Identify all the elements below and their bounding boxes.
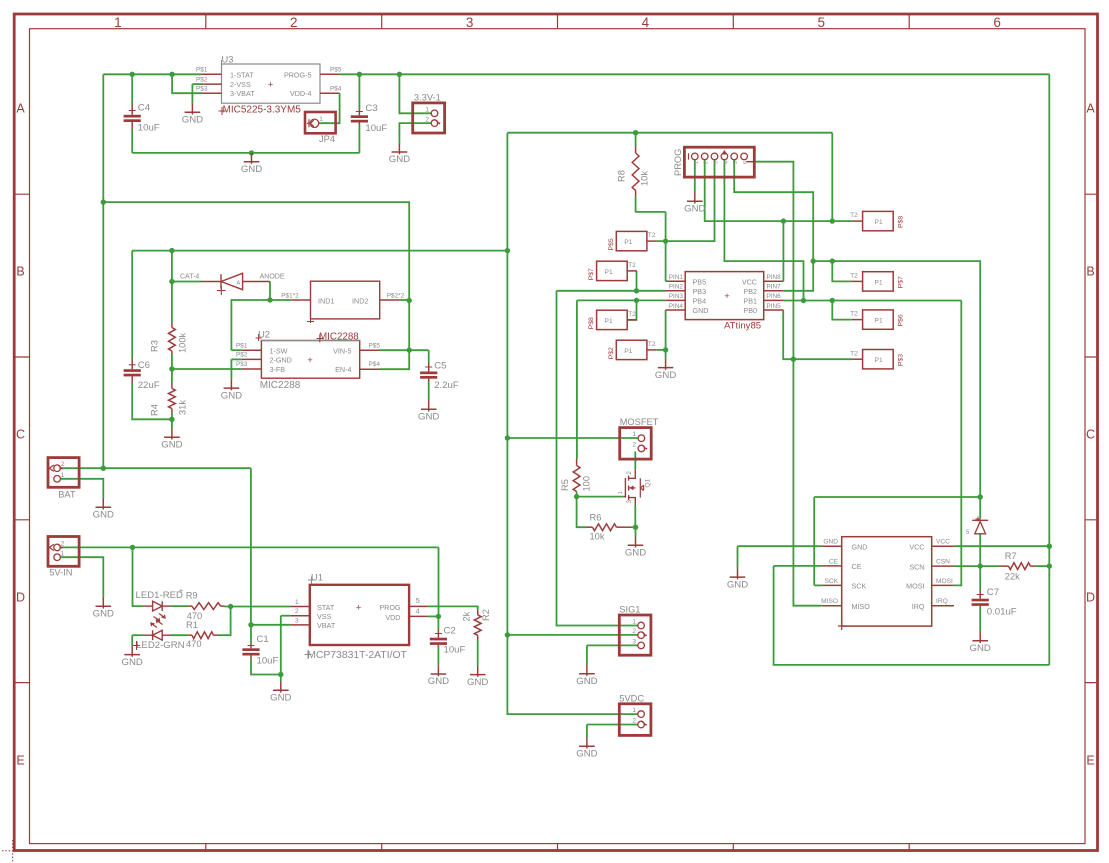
ground PROG pin1 — [684, 193, 705, 215]
wire battery to boost — [103, 202, 409, 300]
svg-text:IRQ: IRQ — [936, 598, 948, 605]
svg-text:PIN1: PIN1 — [669, 274, 684, 281]
resistor R1 body — [192, 632, 214, 639]
svg-text:100: 100 — [582, 476, 592, 492]
U3 pins — [202, 73, 222, 75]
svg-text:T2: T2 — [850, 212, 858, 219]
test point TP2 — [863, 272, 894, 291]
PROG pin 4 — [721, 153, 728, 160]
svg-text:R6: R6 — [590, 512, 602, 522]
svg-text:22k: 22k — [1005, 571, 1020, 581]
wire 5V-IN pin1 to ground — [61, 557, 104, 597]
svg-text:31k: 31k — [178, 400, 188, 415]
svg-text:SIG1: SIG1 — [619, 605, 640, 615]
svg-text:GND: GND — [122, 657, 143, 668]
wire LED1 to R9 — [171, 605, 189, 607]
svg-text:GND: GND — [970, 643, 991, 654]
svg-text:1: 1 — [632, 431, 636, 438]
wire R5 bottom — [576, 492, 578, 497]
svg-text:LED1-RED: LED1-RED — [136, 590, 184, 601]
svg-text:VCC: VCC — [909, 543, 924, 552]
wire C4 top — [131, 74, 133, 104]
svg-text:T2: T2 — [648, 341, 656, 348]
wire to diode cathode — [172, 281, 201, 283]
svg-text:PB3: PB3 — [693, 287, 707, 296]
svg-text:T2: T2 — [628, 311, 636, 318]
svg-text:1: 1 — [632, 619, 636, 626]
wire SCK net right — [813, 261, 980, 497]
wire R4 to ground — [171, 419, 173, 428]
wire PB4 to R5 — [576, 300, 578, 459]
svg-text:P$3: P$3 — [236, 361, 248, 368]
wire to U1 pin3 — [251, 624, 290, 626]
wire ATtiny pin2 row — [557, 290, 666, 292]
svg-text:P$5: P$5 — [330, 67, 342, 74]
svg-text:P$6: P$6 — [898, 314, 905, 326]
wire source to ground — [635, 527, 637, 536]
svg-text:A: A — [237, 281, 241, 287]
svg-text:22uF: 22uF — [138, 380, 160, 391]
svg-text:GND: GND — [467, 677, 488, 688]
wire C3 bottom — [358, 125, 360, 153]
svg-text:4: 4 — [723, 161, 729, 164]
svg-text:GND: GND — [823, 539, 838, 546]
wire BAT pin1 to ground — [61, 479, 104, 499]
capacitor C3 — [351, 115, 368, 122]
svg-text:D: D — [16, 591, 25, 605]
wire U3 pin2 to ground — [191, 84, 193, 103]
svg-text:R2: R2 — [481, 609, 491, 621]
svg-text:PB1: PB1 — [743, 297, 757, 306]
wire ATtiny pin4 to ground — [665, 310, 667, 359]
frame row ticks left — [14, 194, 30, 682]
wire SIG1 pin3 to ground — [586, 645, 588, 665]
wire U1 pin2 link — [281, 615, 291, 617]
svg-text:PIN4: PIN4 — [669, 303, 684, 310]
wire CSN to R7 — [980, 565, 999, 567]
LED2 green — [143, 634, 153, 636]
resistor R8 10k — [635, 147, 637, 154]
svg-text:1-STAT: 1-STAT — [230, 70, 254, 79]
svg-text:PROG: PROG — [673, 149, 683, 176]
svg-text:STAT: STAT — [317, 603, 335, 612]
svg-text:P1: P1 — [605, 318, 613, 325]
svg-text:CE: CE — [829, 558, 839, 565]
svg-text:PIN5: PIN5 — [767, 303, 782, 310]
wire diode bottom — [979, 535, 981, 567]
wire main 5V rail middle — [507, 133, 637, 714]
capacitor C2 plates — [430, 638, 447, 645]
svg-text:C2: C2 — [444, 625, 456, 636]
wire C1 top — [250, 625, 252, 644]
wire PROG pin4 MISO — [724, 160, 803, 301]
wire VIN to EN — [380, 301, 410, 370]
frame row ticks right — [1085, 194, 1098, 682]
capacitor C1 plates — [242, 648, 259, 655]
svg-text:D: D — [1086, 591, 1095, 605]
svg-text:P$7: P$7 — [588, 268, 595, 280]
svg-text:P$2: P$2 — [196, 76, 208, 83]
wire battery to charger — [250, 468, 252, 625]
svg-text:CE: CE — [852, 562, 862, 571]
svg-text:P1: P1 — [875, 357, 883, 364]
resistor R2 2k — [477, 610, 479, 615]
op-amp U5 radio module — [842, 537, 932, 626]
wire reset net vertical — [665, 212, 667, 281]
wire R3 lower — [171, 354, 173, 369]
svg-text:MCP73831T-2ATI/OT: MCP73831T-2ATI/OT — [307, 650, 407, 661]
svg-text:GND: GND — [727, 579, 748, 590]
svg-text:SCK: SCK — [852, 582, 867, 591]
svg-text:VIN-5: VIN-5 — [333, 346, 351, 355]
svg-text:T2: T2 — [850, 350, 858, 357]
svg-text:PB4: PB4 — [693, 297, 707, 306]
svg-text:P$3: P$3 — [898, 354, 905, 366]
connector 5V-IN — [48, 537, 79, 567]
wire C5 bottom to ground — [428, 381, 430, 401]
wire PROG pin2 VCC net — [705, 160, 852, 221]
capacitor C4 — [124, 115, 141, 122]
svg-text:PIN2: PIN2 — [669, 284, 684, 291]
svg-text:P$8: P$8 — [588, 317, 595, 329]
wire SCK testpoint — [832, 261, 852, 281]
wire R3 upper — [171, 282, 173, 323]
resistor R9 470 — [188, 605, 192, 607]
svg-text:GND: GND — [93, 510, 114, 521]
wire U3 pin2 stub link — [192, 83, 201, 85]
svg-text:1: 1 — [61, 550, 65, 557]
resistor R1 470 — [188, 634, 192, 636]
inductor box IND1 IND2 — [311, 281, 380, 319]
ground C1/U1 — [270, 682, 291, 704]
svg-text:10uF: 10uF — [444, 644, 466, 655]
svg-text:1: 1 — [694, 161, 700, 164]
svg-text:P$2: P$2 — [236, 352, 248, 359]
ground R4 — [161, 429, 182, 451]
svg-text:P$7: P$7 — [898, 276, 905, 288]
wire C2 bottom to ground — [437, 647, 439, 666]
svg-text:PIN8: PIN8 — [767, 274, 782, 281]
wire R3 top link — [171, 251, 173, 282]
svg-text:P1: P1 — [875, 219, 883, 226]
ground ATtiny pin4 — [655, 359, 676, 381]
wire VIN rail left of U3 — [103, 73, 201, 75]
diode D1 CAT-4/ANODE — [201, 281, 221, 283]
svg-text:GND: GND — [161, 440, 182, 451]
transistor Q1 n-mosfet — [629, 469, 636, 478]
svg-text:2.2uF: 2.2uF — [434, 380, 459, 391]
svg-text:3: 3 — [714, 161, 720, 164]
svg-text:Q1: Q1 — [645, 478, 652, 487]
wire PROG pin5 SCK — [734, 160, 813, 261]
svg-text:10uF: 10uF — [365, 123, 387, 134]
svg-text:+: + — [724, 291, 730, 302]
svg-text:PIN6: PIN6 — [767, 293, 782, 300]
svg-text:VSS: VSS — [317, 612, 332, 621]
ground SIG1 pin3 — [576, 665, 597, 687]
PROG pin 5 — [731, 153, 738, 160]
svg-text:2-GND: 2-GND — [270, 356, 292, 365]
op-amp U4 ATtiny85 — [685, 272, 764, 320]
ground 5VDC pin2 — [576, 738, 597, 760]
ground BAT pin1 — [93, 499, 114, 521]
frame column ticks bottom — [206, 844, 909, 851]
wire C7 bottom to ground — [979, 608, 981, 633]
svg-text:GND: GND — [182, 115, 203, 126]
svg-text:3.3V-1: 3.3V-1 — [414, 92, 441, 102]
wire 3.3V-1 pin2 to ground — [399, 123, 431, 143]
svg-text:C4: C4 — [138, 103, 151, 114]
svg-text:2: 2 — [290, 15, 298, 30]
wire to LED1 anode — [133, 547, 143, 606]
diode D2 zener — [972, 520, 988, 534]
wire pin6 testpoint — [832, 301, 852, 320]
svg-text:1: 1 — [319, 116, 323, 123]
wire radio SCK link — [814, 584, 822, 586]
svg-text:T2: T2 — [648, 232, 656, 239]
wire radio VCC row — [954, 545, 1049, 547]
svg-text:P1: P1 — [875, 318, 883, 325]
wire PROG pin1 to ground — [694, 160, 696, 193]
wire C4 bottom — [131, 129, 133, 153]
ground R2 — [467, 666, 488, 688]
wire source down — [634, 506, 636, 528]
svg-text:P1: P1 — [624, 348, 632, 355]
svg-text:C5: C5 — [434, 361, 446, 372]
wire testpoint B drop — [636, 271, 638, 291]
svg-text:2k: 2k — [462, 611, 472, 621]
svg-text:C: C — [1086, 428, 1095, 442]
svg-text:2: 2 — [632, 441, 636, 448]
resistor R4 body — [169, 389, 176, 409]
svg-text:3-VBAT: 3-VBAT — [230, 89, 255, 98]
wire diode anode down — [269, 282, 271, 301]
wire C2 top — [437, 616, 439, 629]
ground C5 — [418, 401, 439, 423]
LED1 red — [143, 605, 153, 607]
svg-text:0.01uF: 0.01uF — [987, 607, 1017, 618]
connector PROG 6-pin header — [684, 147, 754, 177]
svg-text:EN-4: EN-4 — [335, 365, 351, 374]
wire SCK to ATtiny pin7 — [783, 261, 813, 291]
wire CE loop bottom — [774, 566, 1050, 665]
svg-text:BAT: BAT — [58, 490, 76, 500]
svg-text:MOSI: MOSI — [906, 582, 924, 591]
svg-text:C3: C3 — [365, 103, 377, 114]
svg-text:GND: GND — [625, 548, 646, 559]
svg-text:4: 4 — [416, 607, 420, 616]
wire ATtiny pin3 row — [577, 299, 666, 301]
ground U2 pin2 — [221, 379, 242, 401]
svg-text:GND: GND — [221, 390, 242, 401]
wire SCK riser — [813, 497, 815, 585]
svg-text:3: 3 — [295, 617, 299, 624]
svg-text:GND: GND — [418, 412, 439, 423]
svg-text:GND: GND — [693, 306, 709, 315]
ground radio — [727, 568, 748, 590]
wire ground node stub — [280, 675, 282, 682]
connector BAT — [48, 458, 79, 488]
wire U2 pin5 VIN row — [380, 349, 429, 351]
svg-text:P1: P1 — [624, 239, 632, 246]
svg-text:R4: R4 — [150, 404, 160, 416]
svg-text:P$2: P$2 — [608, 347, 615, 359]
svg-text:C1: C1 — [257, 634, 269, 645]
svg-text:GND: GND — [655, 370, 676, 381]
svg-text:GND: GND — [576, 749, 597, 760]
svg-text:P$8: P$8 — [898, 216, 905, 228]
svg-text:SCK: SCK — [824, 578, 838, 585]
svg-text:GND: GND — [576, 676, 597, 687]
svg-text:PIN7: PIN7 — [767, 284, 782, 291]
svg-text:E: E — [1086, 754, 1094, 768]
svg-text:U1: U1 — [311, 572, 323, 582]
wire R2 bottom to ground — [477, 640, 479, 666]
test point TP A — [616, 231, 647, 250]
ground 3.3V-1 pin2 — [389, 143, 410, 165]
svg-text:U3: U3 — [222, 55, 234, 65]
frame column ticks top — [206, 14, 909, 29]
svg-text:1: 1 — [114, 15, 122, 30]
op-amp U2 MIC2288 boost converter — [261, 341, 359, 379]
wire R1 right — [218, 607, 231, 636]
svg-text:PIN3: PIN3 — [669, 293, 684, 300]
svg-text:1: 1 — [61, 472, 65, 479]
test point TP D — [616, 340, 647, 359]
wire LED2 to ground — [131, 635, 133, 646]
svg-text:10uF: 10uF — [138, 123, 160, 134]
svg-text:IRQ: IRQ — [912, 602, 925, 611]
svg-text:MIC5225-3.3YM5: MIC5225-3.3YM5 — [223, 105, 302, 116]
wire R8 top — [635, 133, 637, 147]
origin crosshair — [2, 840, 32, 862]
wire ground rail under U3 — [132, 152, 359, 154]
resistor R7 22k — [1000, 565, 1009, 567]
svg-text:PB5: PB5 — [693, 277, 707, 286]
wire CE loop right — [1048, 566, 1050, 665]
wire MOSFET pin2 to drain — [634, 452, 636, 470]
wire C6 top — [131, 251, 133, 359]
svg-text:P$5: P$5 — [369, 342, 381, 349]
wire R8 bottom — [636, 196, 666, 212]
svg-text:6: 6 — [993, 15, 1001, 30]
svg-text:VCC: VCC — [742, 277, 757, 286]
op-amp U3 MIC5225-3.3YM5 regulator — [222, 64, 321, 103]
wire to MOSFET pin1 — [507, 437, 637, 439]
wire C6 bottom — [132, 383, 172, 419]
wire U2 pin2 to ground — [230, 359, 232, 379]
svg-text:MIC2288: MIC2288 — [319, 331, 359, 342]
op-amp U1 MCP73831 charger — [310, 585, 409, 645]
svg-text:PROG-5: PROG-5 — [284, 70, 312, 79]
svg-text:GND: GND — [852, 543, 868, 552]
svg-text:1: 1 — [295, 599, 299, 606]
svg-text:1-SW: 1-SW — [270, 346, 288, 355]
svg-text:CSN: CSN — [936, 559, 950, 566]
svg-text:P$3: P$3 — [196, 85, 208, 92]
wire radio CE pin — [774, 565, 822, 567]
svg-text:+: + — [268, 80, 274, 91]
wire SCK top link — [814, 496, 980, 498]
svg-text:MOSFET: MOSFET — [620, 417, 659, 427]
svg-text:P$4: P$4 — [330, 85, 342, 92]
svg-text:2: 2 — [61, 461, 65, 468]
wire C7 top — [979, 566, 981, 590]
PROG pin 2 — [701, 153, 708, 160]
wire feedback to U2 pin3 — [172, 368, 242, 370]
svg-text:MISO: MISO — [821, 598, 838, 605]
resistor R7 body — [1009, 563, 1031, 570]
svg-text:T2: T2 — [850, 311, 858, 318]
wire C3 top — [358, 74, 360, 110]
svg-text:1: 1 — [425, 106, 429, 113]
wire boost output rail — [132, 250, 507, 252]
resistor R6 body — [593, 524, 617, 531]
capacitor C6 plates — [124, 369, 141, 376]
svg-text:SCN: SCN — [909, 562, 924, 571]
svg-text:5: 5 — [818, 15, 826, 30]
svg-text:R9: R9 — [186, 591, 198, 601]
svg-text:3-FB: 3-FB — [270, 365, 286, 374]
wire U3 pin3 link — [172, 74, 201, 93]
ground rail under U3 — [241, 153, 262, 175]
ground U3 pin2 — [182, 104, 203, 126]
PROG pin 1 — [692, 153, 699, 160]
wire 3V3 feed to right — [507, 132, 832, 134]
svg-text:GND: GND — [428, 676, 449, 687]
svg-text:T2: T2 — [850, 273, 858, 280]
svg-text:100k: 100k — [178, 332, 188, 353]
svg-text:MOSI: MOSI — [936, 578, 953, 585]
svg-text:R5: R5 — [560, 479, 570, 491]
svg-text:P$1*2: P$1*2 — [281, 292, 299, 299]
capacitor C1 10uF — [250, 644, 252, 649]
svg-text:GND: GND — [241, 164, 262, 175]
wire testpoint D link — [657, 349, 666, 351]
svg-text:+: + — [179, 587, 184, 596]
svg-text:MISO: MISO — [852, 602, 871, 611]
wire ATtiny pin6 row — [783, 300, 961, 302]
ground C2 — [428, 665, 449, 687]
svg-text:R3: R3 — [150, 340, 160, 352]
wire U3 pin4 to JP4 — [319, 93, 340, 123]
svg-text:IND1: IND1 — [318, 297, 334, 306]
resistor R5 100 — [576, 459, 578, 466]
wire R4 lower — [171, 413, 173, 419]
ground 5V-IN pin1 — [93, 598, 114, 620]
svg-text:A: A — [16, 102, 25, 116]
connector 3.3V-1 — [413, 103, 445, 133]
connector MOSFET — [620, 428, 652, 460]
wire to SIG1 pin2 — [507, 634, 637, 636]
svg-text:R1: R1 — [186, 620, 198, 630]
test point TP1 — [863, 211, 894, 230]
wire testpoint C drop — [627, 300, 636, 320]
test point TP4 — [863, 350, 894, 369]
wire SIG1 pin3 — [587, 644, 638, 646]
jumper JP4 — [305, 112, 336, 133]
svg-text:CAT-4: CAT-4 — [180, 274, 199, 281]
test point TP C — [597, 310, 628, 329]
wire 3.3V rail right of U3 — [340, 73, 1050, 75]
svg-text:C7: C7 — [987, 587, 999, 598]
resistor R9 body — [192, 603, 221, 610]
svg-text:GND: GND — [93, 609, 114, 620]
wire LED2 to R1 — [171, 634, 189, 636]
svg-text:5VDC: 5VDC — [619, 693, 644, 703]
ground LED2 — [122, 646, 143, 668]
svg-text:2-VSS: 2-VSS — [230, 80, 251, 89]
